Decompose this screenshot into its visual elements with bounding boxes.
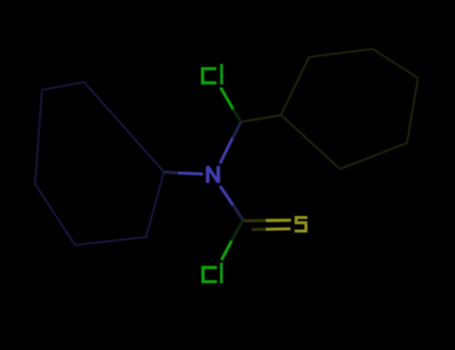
benzene ring left (N-phenyl) xyxy=(35,82,164,245)
wire C to Cl bottom (Cl half) xyxy=(222,241,232,260)
C=S double bond line 1 (carbon half) xyxy=(243,219,266,223)
wire N to CH (N half) xyxy=(220,138,233,164)
label Cl top : l xyxy=(220,64,223,85)
wire N to CH (carbon half) xyxy=(233,122,242,138)
C=S double bond line 2 (S half) xyxy=(266,227,291,231)
label Cl bottom : l xyxy=(220,263,223,284)
wire N to C=S carbon (N half) xyxy=(220,186,233,205)
label Cl top : C xyxy=(203,69,217,83)
label S xyxy=(295,218,308,232)
wire N to left ring (N half) xyxy=(178,173,203,174)
label Cl bottom : C xyxy=(203,268,217,282)
wire N to C=S carbon (carbon half) xyxy=(233,205,243,220)
benzene ring right (CH-phenyl) xyxy=(281,49,418,169)
wire CH to right ring xyxy=(241,115,281,122)
wire Cl top to CH (carbon half) xyxy=(233,109,241,122)
wire Cl top to CH (Cl half) xyxy=(221,88,234,110)
wire N to left ring (carbon half) xyxy=(164,172,178,173)
C=S double bond line 1 (S half) xyxy=(266,219,291,223)
C=S double bond line 2 (carbon half) xyxy=(252,228,267,231)
wire C to Cl bottom (carbon half) xyxy=(232,220,244,241)
label N xyxy=(208,166,219,183)
